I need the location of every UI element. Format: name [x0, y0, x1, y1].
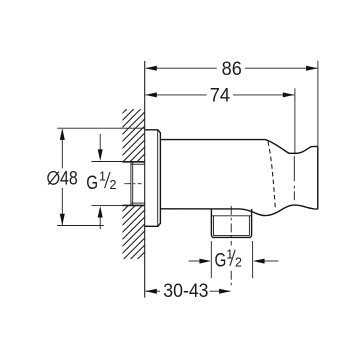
svg-text:2: 2: [110, 178, 117, 192]
svg-text:G: G: [215, 250, 227, 271]
svg-text:30-43: 30-43: [163, 281, 208, 302]
svg-text:G: G: [86, 173, 98, 194]
svg-text:2: 2: [235, 256, 242, 270]
svg-text:48: 48: [60, 168, 78, 189]
svg-text:86: 86: [222, 59, 242, 80]
svg-text:74: 74: [210, 86, 231, 107]
svg-text:1: 1: [99, 169, 106, 183]
